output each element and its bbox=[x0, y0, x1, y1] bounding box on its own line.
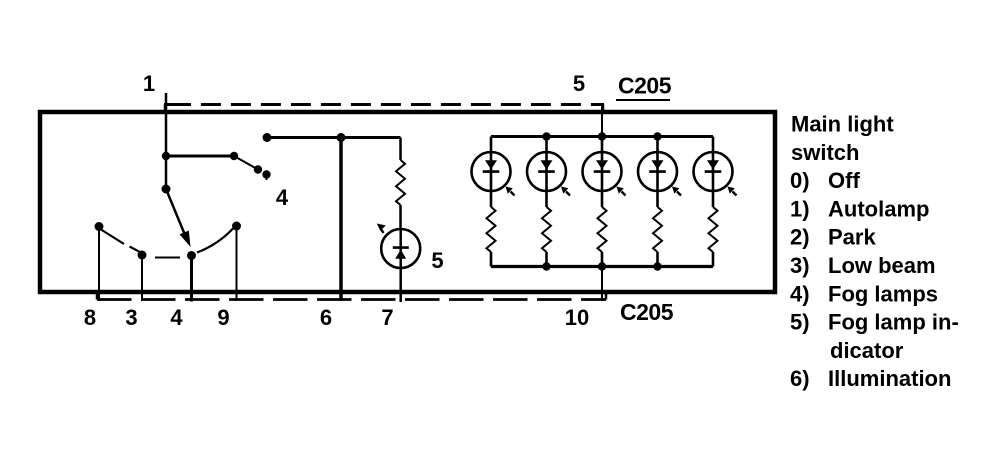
pin 3 bottom label bbox=[125, 305, 137, 330]
contact 4 arm tip dot bbox=[254, 165, 262, 173]
illumination lamp L2 (LED symbol) bbox=[527, 152, 566, 191]
contact dot at end of common wire bbox=[230, 152, 238, 160]
illumination lamp L1 branch wire bbox=[490, 137, 493, 267]
junction dot top bus x=546.5 bbox=[542, 132, 550, 140]
svg-text:switch: switch bbox=[791, 140, 859, 165]
lamp L3 light arrow bbox=[617, 187, 626, 196]
label 5 (indicator) bbox=[431, 248, 443, 273]
pin 4 bottom label bbox=[170, 305, 183, 330]
connector C205 top label bbox=[616, 73, 672, 101]
wiper arm with arrowhead bbox=[166, 189, 191, 247]
legend text: main light switch bbox=[790, 112, 959, 392]
svg-text:Off: Off bbox=[828, 168, 860, 193]
junction dot pin 6 branch bbox=[337, 133, 346, 142]
svg-text:Low beam: Low beam bbox=[828, 253, 936, 278]
svg-text:4: 4 bbox=[170, 305, 183, 330]
position 0 contact dot bbox=[187, 251, 196, 260]
pin 10 bottom label bbox=[565, 305, 589, 330]
detent arc segment 0-1 bbox=[197, 229, 233, 253]
illumination top bus wire bbox=[491, 135, 713, 138]
svg-text:4: 4 bbox=[276, 185, 289, 210]
svg-text:1): 1) bbox=[790, 196, 810, 221]
svg-text:9: 9 bbox=[217, 305, 229, 330]
svg-text:Autolamp: Autolamp bbox=[828, 196, 929, 221]
svg-text:5: 5 bbox=[431, 248, 443, 273]
main light switch assembly box bbox=[40, 112, 775, 292]
pin 4 wire bbox=[190, 258, 193, 302]
svg-text:6: 6 bbox=[320, 305, 332, 330]
switch common horizontal wire bbox=[166, 155, 234, 158]
lamp L1 light arrow bbox=[506, 187, 515, 196]
pin 5 top label bbox=[573, 71, 585, 96]
pin 7 bottom label bbox=[381, 305, 393, 330]
junction dot bottom bus x=657.5 bbox=[653, 262, 661, 270]
resistor R3 (illumination lamp 2) bbox=[542, 207, 551, 252]
svg-text:7: 7 bbox=[381, 305, 393, 330]
svg-text:C205: C205 bbox=[618, 73, 672, 99]
svg-text:1: 1 bbox=[143, 71, 155, 96]
svg-text:Fog lamp in-: Fog lamp in- bbox=[828, 310, 959, 335]
pin 8 bottom label bbox=[84, 305, 96, 330]
junction dot on pin 1 wire bbox=[162, 152, 170, 160]
contact 4 fixed terminal dot bbox=[262, 170, 270, 180]
svg-text:4): 4) bbox=[790, 281, 810, 306]
svg-text:Park: Park bbox=[828, 225, 876, 250]
svg-text:5): 5) bbox=[790, 310, 810, 335]
pin 1 wire bbox=[165, 93, 168, 190]
junction dot top bus x=657.5 bbox=[653, 132, 661, 140]
pin 9 wire bbox=[236, 229, 238, 301]
lamp L2 light arrow bbox=[561, 187, 570, 196]
illumination lamp L3 (LED symbol) bbox=[583, 152, 622, 191]
svg-text:dicator: dicator bbox=[830, 338, 904, 363]
illumination lamp L4 (LED symbol) bbox=[638, 152, 677, 191]
svg-text:C205: C205 bbox=[620, 299, 674, 325]
junction dot top bus x=602 bbox=[598, 132, 606, 140]
pin 7 wire bbox=[399, 268, 402, 302]
label 4 (fog lamp contact) bbox=[276, 185, 289, 210]
svg-text:10: 10 bbox=[565, 305, 589, 330]
svg-text:0): 0) bbox=[790, 168, 810, 193]
svg-text:2): 2) bbox=[790, 225, 810, 250]
svg-text:5: 5 bbox=[573, 71, 585, 96]
svg-text:3): 3) bbox=[790, 253, 810, 278]
svg-text:Main light: Main light bbox=[791, 112, 894, 137]
lamp L4 light arrow bbox=[672, 187, 681, 196]
position 2 contact dot bbox=[138, 251, 147, 260]
resistor R1 (fog indicator series) bbox=[396, 160, 405, 205]
illumination lamp L3 branch wire bbox=[601, 137, 604, 267]
svg-text:Fog lamps: Fog lamps bbox=[828, 281, 938, 306]
illumination lamp L4 branch wire bbox=[656, 137, 659, 267]
resistor R5 (illumination lamp 4) bbox=[653, 207, 662, 252]
wire to resistor R1 bbox=[399, 138, 402, 161]
contact 4 throw arm wire bbox=[234, 156, 258, 170]
junction dot bottom bus x=602 bbox=[598, 262, 606, 270]
pin 6 wire bbox=[339, 138, 343, 302]
svg-text:6): 6) bbox=[790, 366, 810, 391]
pin 10 wire (bottom) bbox=[601, 267, 603, 302]
illumination lamp L1 (LED symbol) bbox=[472, 152, 511, 191]
feed terminal dot bbox=[263, 133, 272, 142]
pin 1 top label bbox=[143, 71, 155, 96]
wiper pivot dot bbox=[162, 185, 171, 194]
connector C205 top dashed boundary bbox=[164, 105, 604, 111]
wire resistor to lamp 5 bbox=[399, 205, 402, 229]
detent arc dash 2-0 bbox=[155, 257, 180, 259]
svg-text:Illumination: Illumination bbox=[828, 366, 951, 391]
position 3 contact dot bbox=[95, 222, 104, 231]
illumination lamp L5 branch wire bbox=[712, 137, 715, 267]
feed horizontal wire bbox=[267, 136, 401, 139]
fog lamp indicator lamp 5 bbox=[381, 229, 420, 268]
resistor R6 (illumination lamp 5) bbox=[709, 207, 718, 252]
svg-text:3: 3 bbox=[125, 305, 137, 330]
lamp 5 light arrow bbox=[377, 224, 386, 234]
junction dot bottom bus x=546.5 bbox=[542, 262, 550, 270]
pin 9 bottom label bbox=[217, 305, 229, 330]
connector C205 bottom dashed boundary bbox=[97, 292, 606, 300]
pin 5 wire (top) bbox=[601, 105, 603, 137]
position 1 contact dot bbox=[232, 222, 241, 231]
resistor R4 (illumination lamp 3) bbox=[598, 207, 607, 252]
illumination bottom bus wire bbox=[491, 265, 713, 268]
svg-text:8: 8 bbox=[84, 305, 96, 330]
illumination lamp L5 (LED symbol) bbox=[694, 152, 733, 191]
illumination lamp L2 branch wire bbox=[545, 137, 548, 267]
pin 6 bottom label bbox=[320, 305, 332, 330]
lamp L5 light arrow bbox=[728, 187, 737, 196]
detent arc segment 3-2 bbox=[101, 230, 141, 253]
pin 8 wire bbox=[98, 229, 100, 301]
resistor R2 (illumination lamp 1) bbox=[487, 207, 496, 252]
connector C205 bottom label bbox=[620, 299, 674, 325]
pin 3 wire bbox=[141, 257, 143, 301]
